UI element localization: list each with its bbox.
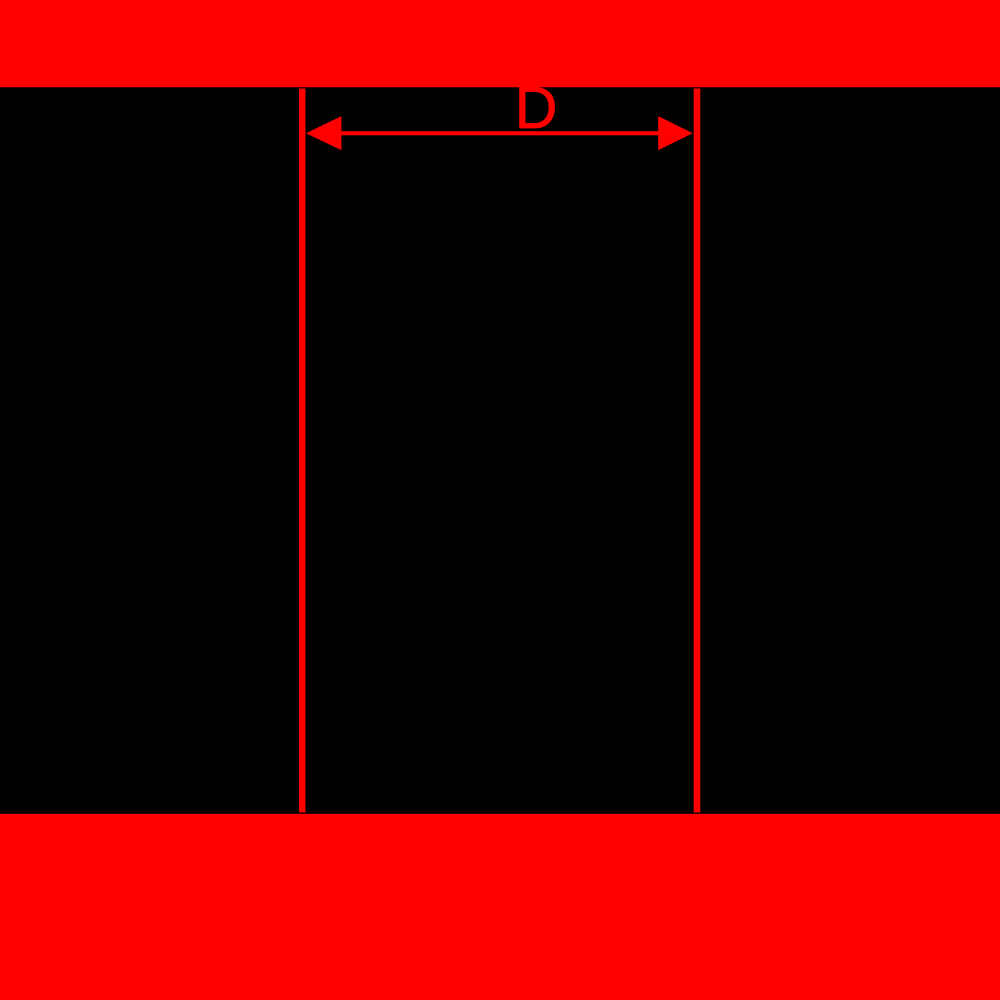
left arrowhead: [306, 116, 341, 150]
bottom red band: [0, 814, 1000, 1000]
right extension line: [694, 89, 701, 813]
left extension line: [299, 89, 306, 813]
dimension line shaft: [340, 131, 659, 135]
top red band: [0, 0, 1000, 87]
svg-text:D: D: [515, 75, 558, 141]
right arrowhead: [658, 116, 693, 150]
